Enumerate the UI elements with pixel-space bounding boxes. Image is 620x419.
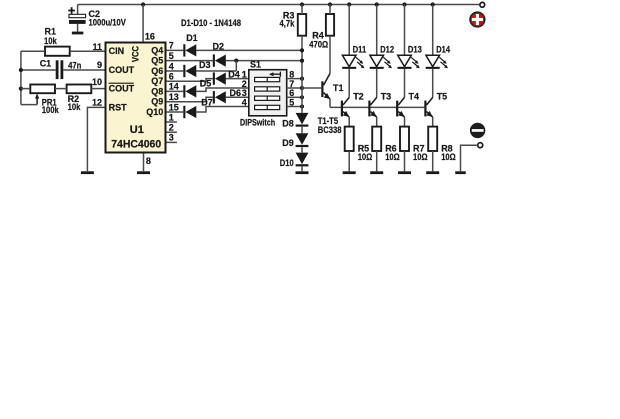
LED D14 emission arrows (439, 57, 448, 68)
svg-text:10Ω: 10Ω (413, 152, 428, 162)
svg-text:D14: D14 (436, 44, 450, 54)
svg-text:U1: U1 (130, 124, 144, 136)
transistor T3 (368, 91, 391, 117)
svg-text:D13: D13 (408, 44, 422, 54)
diode D7 (183, 97, 212, 118)
svg-text:T1: T1 (333, 83, 344, 93)
wire C1 to pin 9 (63, 69, 104, 71)
wire pin 8 to ground (143, 154, 145, 172)
ground R6 (370, 171, 383, 174)
wire D3 join vertical (235, 61, 237, 71)
wire R4 to T1 collector (329, 36, 331, 74)
svg-text:Q9: Q9 (151, 97, 163, 107)
svg-text:4: 4 (242, 97, 247, 107)
svg-text:D8: D8 (282, 119, 294, 129)
wire D8 to D9 (301, 127, 303, 134)
wire RST pin 12 to ground (87, 107, 104, 171)
svg-text:10: 10 (92, 77, 102, 87)
svg-text:D9: D9 (282, 138, 294, 148)
svg-text:D10: D10 (280, 158, 294, 168)
svg-text:D1: D1 (186, 33, 198, 43)
wire R8 to ground (432, 151, 434, 171)
wire T5 emitter to R8 (432, 117, 434, 127)
svg-text:47n: 47n (68, 60, 81, 70)
svg-text:Q7: Q7 (151, 76, 163, 86)
svg-text:10k: 10k (44, 36, 58, 46)
svg-text:6: 6 (169, 72, 174, 82)
wire pin 4 to D3 (167, 70, 184, 72)
diode D8 (282, 113, 308, 129)
svg-text:D2: D2 (213, 41, 225, 51)
wire top +V rail (78, 4, 480, 6)
diode D2 (213, 41, 226, 66)
svg-text:VCC: VCC (131, 45, 141, 62)
wire PR1 to R2 (55, 88, 67, 90)
wire S1 pin 7 to rail (287, 87, 302, 89)
transistor T5 (424, 91, 447, 117)
junction top rail D14 column (431, 2, 435, 6)
resistor R5 10Ω (345, 127, 373, 162)
svg-text:13: 13 (169, 92, 179, 102)
wire D6 to S1 pin 3 (225, 96, 248, 98)
diode D10 (280, 153, 309, 168)
svg-text:Q10: Q10 (146, 107, 163, 117)
IC U1 74HC4060 (106, 43, 166, 153)
resistor R2 10k (67, 85, 92, 112)
junction top rail R4 column (328, 2, 332, 6)
svg-text:D1-D10 - 1N4148: D1-D10 - 1N4148 (181, 18, 241, 28)
svg-text:15: 15 (169, 102, 179, 112)
LED D13 (398, 5, 422, 98)
DIP switch S1 body (249, 70, 287, 116)
svg-text:1000u/10V: 1000u/10V (89, 17, 126, 27)
svg-text:12: 12 (92, 97, 102, 107)
wire D3 to junction (196, 70, 236, 72)
wire base rail T2-T5 (330, 106, 424, 108)
wire R1 to pin 11 (70, 50, 105, 52)
wire U1 pin 1 stub (167, 121, 177, 123)
resistor R6 10Ω (372, 127, 400, 162)
resistor R4 470Ω (309, 14, 334, 50)
S1 switch element 1 (255, 77, 280, 81)
ground R5 (343, 171, 356, 174)
junction rail S1 pin 5 (300, 104, 304, 108)
svg-text:10k: 10k (68, 102, 82, 112)
wire S1 pin 5 to rail (287, 106, 302, 108)
junction C1 / left vertical (19, 68, 23, 72)
diode D6 (213, 88, 241, 103)
wire D5 to S1 pin 2 (196, 88, 249, 91)
svg-text:DIPSwitch: DIPSwitch (240, 118, 275, 128)
badge minus (470, 123, 485, 138)
wire D10 to ground (301, 167, 303, 172)
wire S1 pin 6 to rail (287, 96, 302, 98)
wire pin 7 to D1 (167, 49, 184, 51)
wire pin 5 to D2 (167, 60, 213, 62)
S1 switch element 2 (255, 87, 280, 91)
badge plus (470, 12, 485, 27)
svg-text:9: 9 (97, 60, 102, 70)
ground C2 (72, 32, 84, 35)
diode D9 (282, 133, 308, 148)
terminal + (battery positive) (480, 2, 485, 7)
junction top rail D13 column (402, 2, 406, 6)
svg-text:Q4: Q4 (151, 45, 163, 55)
junction top rail D12 column (375, 2, 379, 6)
potentiometer PR1 100k (30, 85, 59, 116)
S1 switch element 3 (255, 96, 280, 100)
ground RST (81, 171, 94, 174)
wire R7 to ground (404, 151, 406, 171)
wire S1 pin 8 to rail (287, 78, 302, 80)
ground D10 (296, 171, 309, 174)
wire left vertical (20, 51, 22, 104)
svg-text:2: 2 (169, 123, 174, 133)
svg-text:11: 11 (92, 42, 102, 52)
svg-text:Q8: Q8 (151, 86, 163, 96)
S1 direction arrow (269, 72, 281, 77)
U1 COUT-bar overline (109, 82, 134, 84)
wire negative terminal to ground (461, 145, 478, 171)
transistor T2 (341, 91, 364, 117)
wire summing rail (301, 36, 303, 113)
wire D1 to rail (196, 49, 302, 51)
resistor R1 10k (44, 27, 70, 56)
junction D2/D3 node (234, 59, 238, 63)
svg-text:4,7k: 4,7k (280, 18, 296, 28)
diode D3 (183, 60, 210, 77)
svg-text:10Ω: 10Ω (358, 152, 373, 162)
svg-text:COUT: COUT (109, 84, 135, 94)
resistor R3 4,7k (280, 10, 307, 35)
wire U1 pin 3 stub (167, 141, 177, 143)
ground R8 (426, 171, 439, 174)
svg-text:10Ω: 10Ω (441, 152, 456, 162)
svg-text:D3: D3 (199, 60, 211, 70)
junction rail S1 pin 8 (300, 77, 304, 81)
wire D2 to rail (225, 60, 302, 62)
svg-text:16: 16 (145, 31, 155, 41)
terminal - (battery negative) (478, 143, 483, 148)
svg-text:CIN: CIN (109, 46, 125, 56)
wire R5 to ground (348, 151, 350, 171)
LED D13 emission arrows (411, 57, 420, 68)
junction top rail R3 column (300, 2, 304, 6)
svg-text:14: 14 (169, 82, 179, 92)
wire pin 6 to D4 (167, 79, 213, 82)
ground R7 (398, 171, 411, 174)
junction VCC rail (141, 2, 145, 6)
junction top rail D11 column (347, 2, 351, 6)
wire T3 emitter to R6 (376, 117, 378, 127)
svg-text:BC338: BC338 (318, 125, 342, 135)
svg-text:COUT: COUT (109, 65, 135, 75)
wire T4 emitter to R7 (404, 117, 406, 127)
wire PR1 wiper return (21, 104, 37, 106)
svg-text:74HC4060: 74HC4060 (111, 139, 161, 151)
svg-text:8: 8 (146, 156, 151, 166)
svg-text:1: 1 (169, 112, 174, 122)
transistor T4 (396, 91, 419, 117)
junction rail D2/D3 (300, 59, 304, 63)
LED D12 (370, 5, 394, 98)
svg-text:5: 5 (169, 51, 174, 61)
wire T2 emitter to R5 (348, 117, 350, 127)
wire pin 13 to D6 (167, 97, 213, 102)
svg-text:T4: T4 (409, 91, 420, 101)
svg-text:100k: 100k (42, 105, 60, 115)
LED D12 emission arrows (383, 57, 392, 68)
LED D11 emission arrows (356, 57, 365, 68)
svg-text:D11: D11 (353, 44, 367, 54)
wire D9 to D10 (301, 147, 303, 152)
junction rail S1 pin 7 (300, 86, 304, 90)
wire rail to T1 base (302, 87, 321, 89)
svg-text:C1: C1 (40, 59, 52, 69)
wire R6 to ground (376, 151, 378, 171)
wire R4 top (329, 5, 331, 15)
svg-text:T2: T2 (353, 91, 364, 101)
svg-text:Q6: Q6 (151, 66, 163, 76)
wire VCC pin 16 (142, 5, 144, 42)
junction rail S1 pin 6 (300, 95, 304, 99)
svg-text:10Ω: 10Ω (385, 152, 400, 162)
junction rail D1 (300, 48, 304, 52)
svg-text:T3: T3 (381, 91, 392, 101)
S1 switch element 4 (255, 105, 280, 109)
wire R1 left (21, 50, 45, 52)
wire pin 15 to D7 (167, 111, 184, 113)
svg-text:D5: D5 (200, 79, 212, 89)
capacitor C2 1000u/10V (68, 5, 85, 32)
capacitor C1 47n (56, 60, 64, 79)
wire C1 left (21, 69, 56, 71)
wire pin 14 to D5 (167, 90, 184, 92)
svg-text:4: 4 (169, 61, 174, 71)
diode D5 (183, 79, 211, 98)
wire D7 to S1 pin 4 (196, 107, 249, 113)
wire R2 to pin 10 (91, 88, 104, 90)
wire R3 top (301, 5, 303, 15)
svg-text:3: 3 (169, 133, 174, 143)
resistor R8 10Ω (428, 127, 456, 162)
LED D14 (426, 5, 450, 98)
wire T1 emitter down (329, 99, 331, 108)
ground negative terminal (455, 171, 466, 174)
LED D11 (342, 5, 366, 98)
svg-text:7: 7 (169, 41, 174, 51)
svg-text:RST: RST (109, 102, 128, 112)
transistor T1 (321, 74, 343, 100)
resistor R7 10Ω (400, 127, 428, 162)
wire PR1 left (21, 88, 30, 90)
svg-text:D12: D12 (380, 44, 394, 54)
diode D4 (213, 69, 240, 84)
diode D1 (183, 33, 197, 57)
svg-text:S1: S1 (250, 60, 261, 70)
wire U1 pin 2 stub (167, 131, 177, 133)
svg-text:Q5: Q5 (151, 56, 163, 66)
ground pin 8 (137, 171, 150, 174)
junction PR1 / left vertical (19, 87, 23, 91)
svg-text:470Ω: 470Ω (309, 40, 328, 50)
svg-text:T5: T5 (437, 91, 448, 101)
wire D4 to S1 pin 1 (225, 78, 248, 80)
